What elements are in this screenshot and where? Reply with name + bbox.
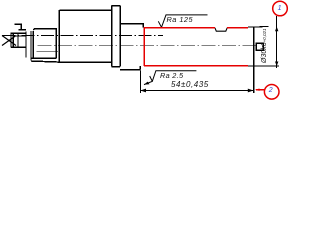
bottom edge black part + extension <box>248 65 279 67</box>
right arrowhead <box>248 89 254 93</box>
collar disc between C1 and C2 <box>25 32 27 58</box>
balloon 1 digit <box>278 5 282 12</box>
left arrowhead <box>140 89 146 93</box>
rotated diameter text <box>261 28 268 63</box>
main cylinder <box>59 10 111 62</box>
Ra 2.5 roughness symbol with leader arrow <box>144 71 196 85</box>
inner edge line of C2 <box>37 51 59 53</box>
left extension line of 54 dim <box>139 71 141 94</box>
thread runout line <box>17 33 19 47</box>
balloon 2 <box>264 85 279 100</box>
relief groove <box>215 28 227 31</box>
endpoint grip marker <box>256 43 263 50</box>
center mark X on left end face <box>2 36 16 46</box>
Ra 2.5 text <box>160 71 200 80</box>
chamfer mark symbol <box>15 24 27 30</box>
main centerline <box>2 34 163 36</box>
red highlighted eccentric section <box>144 28 248 66</box>
top extension line <box>248 26 269 29</box>
Ra 125 text <box>167 15 209 24</box>
dia top arrowhead <box>275 27 278 32</box>
dia bottom arrowhead <box>275 62 278 67</box>
right end face + extension down <box>253 28 255 94</box>
eccentric centerline <box>38 45 256 47</box>
balloon 1 <box>273 1 288 16</box>
thread line <box>13 35 26 37</box>
54 dimension line <box>140 90 253 92</box>
cylinder C2 <box>31 29 60 63</box>
flange <box>112 6 121 67</box>
54 dimension text <box>171 80 217 89</box>
Ra 125 roughness symbol <box>158 15 207 27</box>
shaft tip cylinder C1 <box>11 33 26 48</box>
diameter dimension line vertical <box>276 16 278 68</box>
balloon 2 digit <box>269 87 273 94</box>
intermediate eccentric collar <box>120 24 143 70</box>
balloon 2 leader <box>256 89 265 91</box>
